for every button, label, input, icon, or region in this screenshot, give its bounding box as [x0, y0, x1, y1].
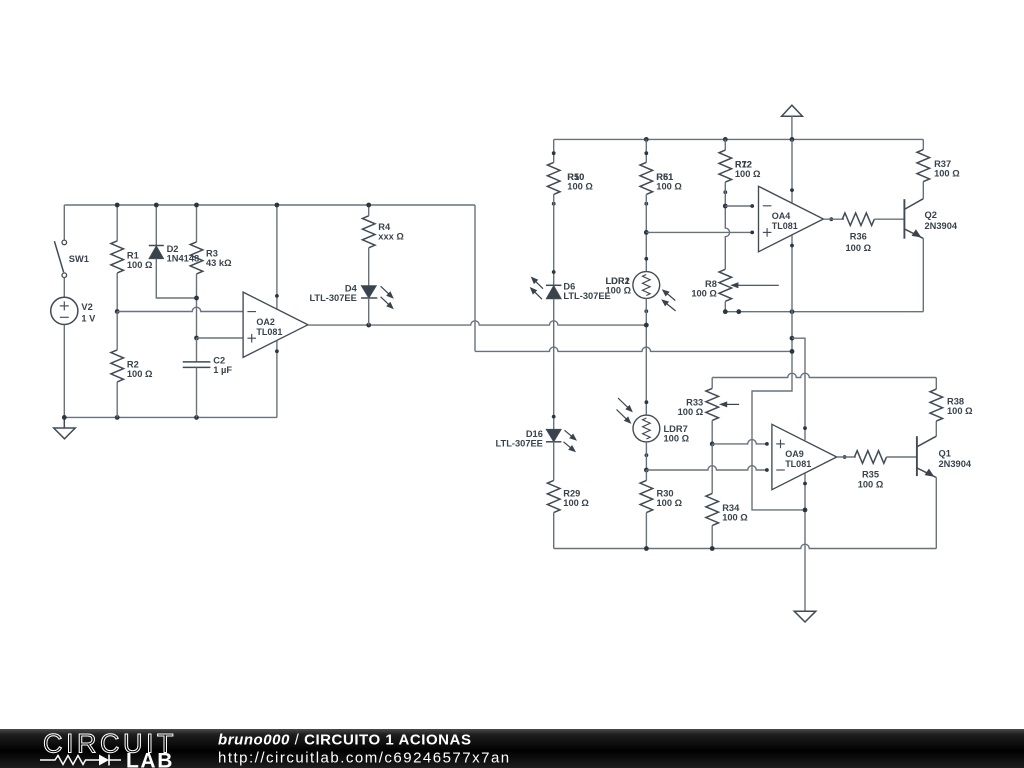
- resistor R51: [640, 151, 682, 205]
- node V2/ground junction: [62, 415, 67, 420]
- wire OA9 output to R35: [837, 456, 856, 458]
- svg-text:xxx Ω: xxx Ω: [378, 231, 404, 241]
- svg-text:OA9: OA9: [785, 449, 804, 459]
- svg-text:100 Ω: 100 Ω: [934, 169, 960, 179]
- ground symbol left: [54, 417, 75, 438]
- wire bottom rail of lower section: [554, 544, 937, 548]
- svg-text:R29: R29: [563, 488, 580, 498]
- node rail/D2: [154, 203, 159, 208]
- svg-text:OA4: OA4: [772, 211, 791, 221]
- svg-text:OA2: OA2: [256, 317, 275, 327]
- wire R1 to node: [116, 273, 118, 312]
- transistor Q1: [917, 436, 972, 477]
- wire R29 to bottom rail: [553, 513, 555, 549]
- wire R33 to junction: [711, 420, 713, 444]
- svg-text:1 µF: 1 µF: [213, 365, 232, 375]
- svg-text:R10: R10: [567, 172, 584, 182]
- svg-text:LTL-307EE: LTL-307EE: [563, 291, 610, 301]
- wire noninverting input row (to OA2): [197, 337, 244, 339]
- node bottom row / OA4 V- line: [790, 309, 795, 314]
- svg-text:100 Ω: 100 Ω: [846, 243, 872, 253]
- svg-text:R33: R33: [686, 397, 703, 407]
- node bottom row segment: [736, 309, 741, 314]
- node R8 bottom: [723, 309, 728, 314]
- resistor R12: [719, 150, 761, 194]
- resistor R1: [111, 241, 153, 273]
- resistor R29: [547, 480, 589, 512]
- wire rail to R38: [935, 378, 937, 390]
- wire Q1 emitter to bottom rail: [935, 478, 937, 549]
- svg-text:R35: R35: [862, 469, 879, 479]
- LED D16: [496, 429, 577, 452]
- svg-text:R36: R36: [850, 232, 867, 242]
- wire Q2 emitter down to bottom row: [922, 238, 924, 311]
- svg-text:C2: C2: [213, 355, 225, 365]
- wire OA4 noninverting row: [646, 231, 752, 233]
- capacitor C2: [183, 355, 233, 375]
- node rail/R3: [194, 203, 199, 208]
- wire from rail down to SW1: [63, 205, 65, 240]
- wire D6 down to D16: [553, 299, 555, 430]
- wire R2 to ground rail: [116, 382, 118, 418]
- node rail/VCC: [790, 137, 795, 142]
- wire rail to R12: [724, 139, 726, 150]
- svg-text:2N3904: 2N3904: [939, 459, 972, 469]
- wire rail to R4: [368, 205, 370, 216]
- wire rail to OA2 V+ pin: [276, 205, 278, 310]
- svg-text:Q2: Q2: [925, 210, 937, 220]
- svg-text:1N4148: 1N4148: [167, 253, 200, 263]
- wire bottom row of middle section: [725, 311, 923, 313]
- wire D4 to output row: [368, 298, 370, 325]
- svg-text:R34: R34: [722, 503, 740, 513]
- svg-text:R37: R37: [934, 159, 951, 169]
- wire ground rail of left section: [64, 416, 277, 418]
- wire D2 to R3 node: [156, 259, 196, 298]
- wire rail to R1: [116, 205, 118, 241]
- wire R3 to nodes: [196, 274, 198, 338]
- wire OA2 output row: [308, 321, 646, 325]
- node rail/R12: [723, 137, 728, 142]
- svg-text:TL081: TL081: [772, 221, 798, 231]
- wire R8 to bottom row: [724, 301, 726, 311]
- wire node to R2: [116, 312, 118, 350]
- ground symbol lower: [794, 611, 816, 622]
- wire LDR2 to LDR7: [645, 298, 647, 415]
- wire R30 to bottom rail: [645, 513, 647, 549]
- resistor R3: [190, 242, 232, 274]
- transistor Q2: [904, 199, 957, 239]
- svg-text:LTL-307EE: LTL-307EE: [309, 293, 356, 303]
- wire R12 to R8 column (hops over plus row): [725, 182, 729, 269]
- footer bar with CircuitLab logo and title: [0, 729, 1024, 768]
- svg-text:LDR1: LDR1: [606, 276, 630, 286]
- node R34 bottom rail: [710, 546, 715, 551]
- svg-text:R72: R72: [735, 160, 752, 170]
- node rail/R1: [115, 203, 120, 208]
- svg-text:LAB: LAB: [126, 749, 174, 768]
- wire OA9 noninverting row: [712, 440, 767, 444]
- node rail/R4: [366, 203, 371, 208]
- node R33/plus-row: [710, 442, 715, 447]
- node R12/OA4 minus junction: [723, 204, 728, 209]
- resistor R34: [706, 493, 748, 525]
- resistor R35: [854, 451, 886, 490]
- svg-text:100 Ω: 100 Ω: [657, 498, 683, 508]
- node R29 bottom rail: [644, 546, 649, 551]
- svg-text:R30: R30: [657, 488, 674, 498]
- wire node to C2: [196, 338, 198, 362]
- svg-text:100 Ω: 100 Ω: [567, 182, 593, 192]
- wire R36 to Q2 base: [874, 218, 904, 220]
- resistor R4: [362, 216, 404, 248]
- svg-text:100 Ω: 100 Ω: [858, 480, 884, 490]
- wire R50 to D6: [553, 194, 555, 285]
- svg-text:TL081: TL081: [256, 327, 282, 337]
- svg-text:43 kΩ: 43 kΩ: [206, 258, 232, 268]
- svg-text:100 Ω: 100 Ω: [606, 286, 632, 296]
- node R51/plus-wire junction: [644, 230, 649, 235]
- wire rail to D2: [155, 205, 157, 246]
- svg-text:100 Ω: 100 Ω: [127, 369, 153, 379]
- node R2 bottom: [115, 415, 120, 420]
- wire top rail of left section: [64, 204, 475, 206]
- wire OA4 inverting row: [725, 205, 752, 207]
- wire Q2 collector to R37: [922, 182, 924, 199]
- node OA4 V-/feedback tee: [790, 336, 795, 341]
- node C2 bottom: [194, 415, 199, 420]
- svg-text:D6: D6: [563, 281, 575, 291]
- svg-text:http://circuitlab.com/c6924657: http://circuitlab.com/c69246577x7an: [218, 750, 511, 767]
- wire rail to R37: [922, 139, 924, 149]
- wire top-rail drop to crossover rail: [475, 205, 792, 351]
- wire R33 node to R34 (minus row hops over): [711, 444, 713, 494]
- diode D2: [149, 244, 199, 264]
- svg-text:TL081: TL081: [785, 459, 811, 469]
- LED D6 (pin node): [552, 270, 556, 274]
- svg-text:D16: D16: [526, 429, 543, 439]
- voltage source V2: [51, 297, 96, 324]
- wire OA9 inverting row: [646, 466, 767, 470]
- svg-text:D2: D2: [167, 244, 179, 254]
- wire top rail of middle section: [554, 138, 924, 140]
- svg-text:LTL-307EE: LTL-307EE: [496, 439, 543, 449]
- wire LDR7 to minus node: [645, 442, 647, 470]
- wire OA9 V- pin to ground: [804, 474, 806, 612]
- wire rail to R50: [553, 139, 555, 162]
- wire D16 to R29: [553, 442, 555, 481]
- resistor R38: [930, 389, 973, 421]
- svg-text:V2: V2: [81, 302, 92, 312]
- resistor R2: [111, 350, 153, 382]
- svg-text:SW1: SW1: [69, 254, 89, 264]
- resistor R30: [640, 480, 682, 512]
- wire OA2 V- pin to ground rail: [276, 341, 278, 418]
- svg-text:Q1: Q1: [939, 448, 951, 458]
- svg-text:R38: R38: [947, 396, 964, 406]
- node crossover rail end: [790, 349, 795, 354]
- svg-text:100 Ω: 100 Ω: [678, 407, 704, 417]
- node R1/R2/op-amp minus: [115, 309, 120, 314]
- wire SW1 to V2: [63, 278, 65, 298]
- svg-text:100 Ω: 100 Ω: [563, 498, 589, 508]
- wire rail to R51: [645, 139, 647, 162]
- node output-row end at LDR2: [644, 323, 649, 328]
- wire Q1 collector to R38: [935, 421, 937, 436]
- wire V2 to ground rail: [63, 325, 65, 418]
- power flag VCC: [782, 105, 803, 139]
- svg-text:100 Ω: 100 Ω: [691, 288, 717, 298]
- wire R51 to LDR2: [645, 194, 647, 271]
- wire inverting input row (R1 node to OA2): [117, 307, 243, 311]
- svg-text:R1: R1: [127, 250, 139, 260]
- svg-text:R4: R4: [378, 222, 391, 232]
- photoresistor LDR7: [617, 398, 690, 457]
- node D2/R3: [194, 296, 199, 301]
- resistor R37: [917, 150, 960, 182]
- op-amp OA2: [243, 292, 308, 357]
- svg-text:R51: R51: [656, 172, 673, 182]
- node rail/R51: [644, 137, 649, 142]
- svg-text:R2: R2: [127, 359, 139, 369]
- op-amp OA9: [765, 424, 846, 489]
- LED D6: [530, 277, 611, 302]
- wire R4 to D4: [368, 248, 370, 286]
- svg-text:100 Ω: 100 Ω: [664, 434, 690, 444]
- resistor R50: [547, 151, 593, 205]
- wire node to R30: [645, 470, 647, 481]
- svg-text:R3: R3: [206, 249, 218, 259]
- wire OA4 V- pin down to feedback corner: [752, 235, 805, 510]
- svg-text:1 V: 1 V: [81, 313, 96, 323]
- potentiometer R8: [691, 269, 778, 301]
- svg-text:D4: D4: [345, 284, 358, 294]
- node rail/OA2 V+: [275, 203, 280, 208]
- svg-text:100 Ω: 100 Ω: [127, 260, 153, 270]
- wire OA4 output to R36: [823, 218, 844, 220]
- op-amp OA4: [750, 186, 833, 252]
- node LDR7/minus-row: [644, 468, 649, 473]
- resistor R36: [842, 213, 874, 253]
- node feedback/V- junction: [803, 508, 808, 513]
- wire VCC line to OA4 V+ pin: [791, 139, 793, 203]
- svg-text:bruno000 / CIRCUITO 1 ACIONAS: bruno000 / CIRCUITO 1 ACIONAS: [218, 732, 472, 749]
- svg-text:LDR7: LDR7: [664, 424, 688, 434]
- svg-text:100 Ω: 100 Ω: [656, 182, 682, 192]
- switch SW1: [54, 240, 89, 277]
- wire R35 to Q1 base: [887, 456, 917, 458]
- svg-text:100 Ω: 100 Ω: [735, 169, 761, 179]
- svg-text:100 Ω: 100 Ω: [947, 406, 973, 416]
- svg-text:100 Ω: 100 Ω: [722, 513, 748, 523]
- wire OA4 V+ branch to OA9 V+: [792, 338, 805, 440]
- LED D4: [309, 284, 393, 310]
- LED D16 (pin node): [552, 415, 556, 419]
- node R3/C2/op-amp plus: [194, 336, 199, 341]
- wire C2 to ground rail: [196, 367, 198, 417]
- wire rail to R3: [196, 205, 198, 242]
- photoresistor LDR2: [606, 257, 676, 313]
- svg-text:2N3904: 2N3904: [925, 221, 958, 231]
- wire R34 to bottom rail: [711, 526, 713, 549]
- wire top rail of lower section: [712, 373, 936, 377]
- svg-text:R8: R8: [705, 279, 717, 289]
- node output/D4: [366, 323, 371, 328]
- potentiometer R33: [678, 378, 739, 421]
